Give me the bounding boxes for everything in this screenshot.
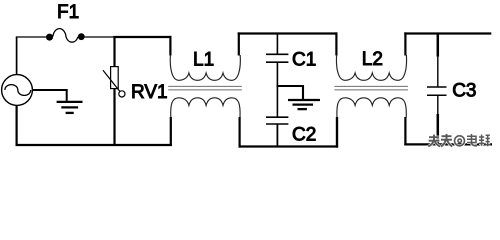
varistor RV1 [103,67,125,97]
svg-text:C3: C3 [452,81,476,102]
svg-text:C1: C1 [292,49,316,70]
wire source to ground [32,89,66,101]
capacitor C2 [266,117,288,124]
ground G2 [288,100,320,109]
wire C1 to C2 [276,62,278,117]
svg-text:L1: L1 [193,50,214,71]
wire source top to rail [16,37,18,75]
wire right box bottom rail [404,143,492,145]
wire L2 terminal bottom-right [404,117,406,146]
wire L1 terminal top-left [169,36,171,56]
svg-text:L2: L2 [362,49,383,70]
capacitor C3 [427,87,447,95]
wire RV1 stem top [113,36,115,67]
wire RV1 stem bottom [113,88,115,146]
wire L1 terminal bottom-left [170,117,172,146]
wire C3 bottom lead [437,95,439,114]
wire top rail thick to L1 [113,36,171,38]
wire C3 top lead [437,34,440,57]
wire L2 terminal bottom-left [336,117,338,148]
watermark 头条@电耀 [428,134,490,147]
wire L1 terminal bottom-right [239,117,241,148]
wire middle box bottom rail [239,145,339,147]
wire bottom rail left loop [16,144,172,146]
wire middle box bottom-right stub [336,117,338,148]
capacitor C1 [266,54,288,62]
wire L2 terminal top-right [404,32,406,55]
inductor L1 [168,55,242,118]
svg-text:F1: F1 [57,2,79,23]
wire junction to ground G2 [277,85,303,99]
inductor L2 [334,55,408,118]
AC source V1 [2,75,33,106]
wire C1 top lead [276,34,278,55]
fuse F1 [46,29,85,43]
svg-text:RV1: RV1 [131,82,168,103]
wire top rail left thin segment [16,36,47,38]
wire L1 terminal top-right [238,32,240,55]
ground G1 [57,102,83,113]
wire right box top rail [404,32,491,34]
wire fuse to node [85,36,115,38]
wire C2 bottom lead [276,124,278,147]
wire source bottom [16,105,18,146]
wire middle box top-right stub [335,32,337,55]
svg-text:C2: C2 [292,124,316,145]
wire middle box top rail [238,32,338,34]
